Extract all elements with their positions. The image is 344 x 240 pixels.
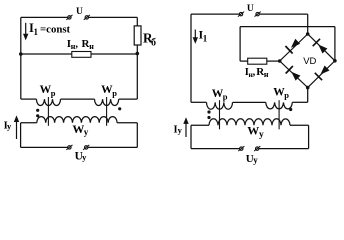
svg-text:н: н (264, 70, 269, 79)
svg-text:,: , (253, 67, 256, 78)
svg-text:VD: VD (303, 56, 316, 67)
svg-text:p: p (112, 88, 117, 98)
svg-text:,: , (75, 39, 78, 50)
svg-text:y: y (253, 155, 258, 165)
svg-text:1: 1 (203, 33, 208, 43)
svg-text:y: y (259, 130, 264, 140)
svg-text:U: U (76, 7, 83, 17)
svg-text:p: p (223, 92, 228, 102)
svg-text:н: н (89, 42, 94, 51)
svg-text:y: y (84, 127, 89, 137)
svg-text:W: W (247, 123, 259, 137)
svg-text:y: y (178, 125, 183, 135)
svg-text:p: p (284, 90, 289, 100)
svg-text:U: U (247, 4, 254, 14)
svg-text:W: W (72, 122, 84, 136)
svg-text:p: p (51, 88, 56, 98)
svg-text:y: y (82, 152, 87, 162)
svg-text:1: 1 (34, 27, 39, 37)
svg-text:б: б (151, 37, 156, 48)
svg-text:=const: =const (40, 23, 71, 35)
